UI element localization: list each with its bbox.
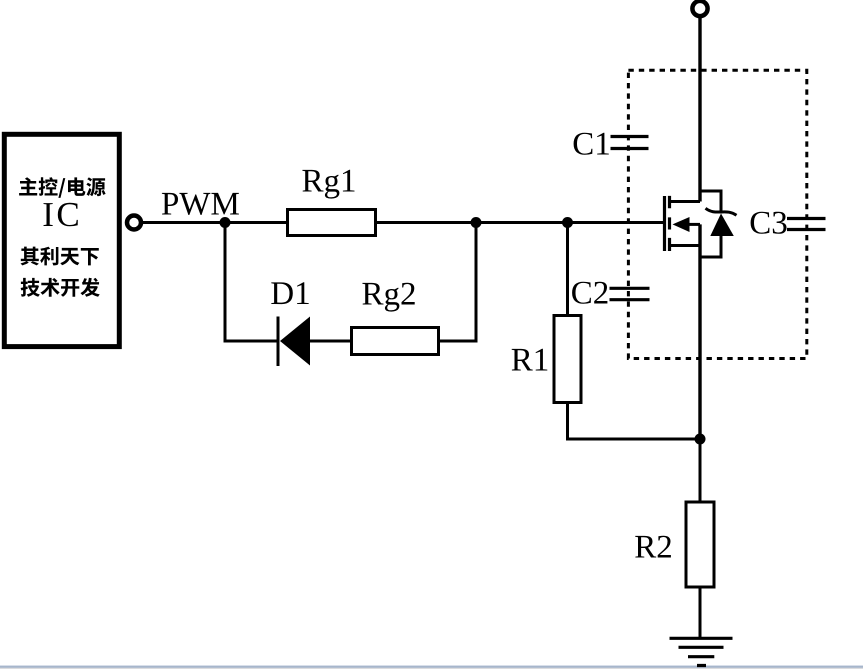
label: 技术开发 [21, 278, 100, 297]
resistor Rg1 [288, 210, 376, 236]
label Rg2 [362, 283, 414, 312]
wire: PWM junction down to D1 anode [225, 223, 278, 342]
label: IC [44, 203, 78, 227]
wire: MOSFET source down to node [698, 224, 701, 439]
node: PWM / D1 branch junction [220, 217, 231, 228]
IC U1: controller/power IC block [4, 134, 119, 346]
net label PWM [162, 193, 239, 215]
ground [670, 638, 733, 665]
label C3 [751, 212, 787, 234]
capacitor C1 [611, 137, 649, 149]
wire: Rg1 to MOSFET gate [376, 221, 665, 224]
wire: R2 to ground [699, 587, 702, 637]
capacitor C3 [787, 219, 826, 230]
node: R1 branch junction [562, 217, 573, 228]
node: Rg2 branch junction [471, 217, 482, 228]
wire: junction down to R1 [566, 223, 569, 315]
wire: Rg2 up to gate net [440, 223, 476, 342]
label R2 [635, 536, 671, 558]
diode D1 [278, 317, 310, 367]
wire: supply terminal down to MOSFET drain [698, 16, 701, 202]
wire: node down to R2 [699, 439, 702, 501]
node: source / R1 / R2 junction [695, 434, 706, 445]
wire: R1 to source node [568, 404, 701, 439]
label: 其利天下 [21, 247, 99, 266]
label C2 [572, 282, 607, 304]
terminal: PWM output pin [127, 216, 141, 230]
label D1 [271, 282, 308, 304]
terminal: drain supply pin [692, 1, 707, 16]
resistor Rg2 [352, 328, 439, 355]
label R1 [512, 349, 548, 371]
dashed module boundary box [628, 70, 806, 358]
label Rg1 [302, 170, 354, 199]
resistor R2 [686, 502, 714, 587]
resistor R1 [554, 316, 581, 403]
capacitor C2 [610, 288, 650, 299]
label C1 [574, 133, 609, 155]
page separator line [0, 665, 863, 669]
wire: PWM terminal to Rg1 [141, 221, 286, 224]
wire: D1 to Rg2 [310, 340, 350, 343]
label: 主控/电源 [19, 177, 106, 198]
transistor Q1 (N-channel MOSFET with body diode) [665, 191, 737, 257]
